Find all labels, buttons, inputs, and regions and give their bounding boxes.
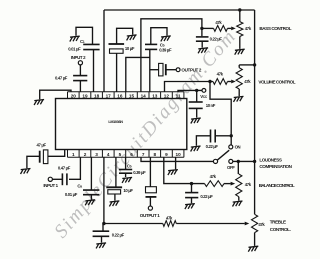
svg-text:VOLUME CONTROL: VOLUME CONTROL xyxy=(258,79,295,84)
arrow treble wiper xyxy=(245,222,250,226)
svg-text:ON: ON xyxy=(235,145,241,150)
resistor 47k bass xyxy=(214,26,228,32)
svg-text:BALANCE CONTROL: BALANCE CONTROL xyxy=(259,183,295,188)
svg-text:OUTPUT 2: OUTPUT 2 xyxy=(181,67,202,72)
svg-text:13: 13 xyxy=(152,93,158,98)
wire top rail xyxy=(104,9,255,11)
node volume wiper junction xyxy=(208,80,211,83)
wire pin9 to balance R xyxy=(164,157,205,183)
wire rail to bottom cap xyxy=(102,224,104,232)
ground pin20 xyxy=(34,100,44,106)
capacitor 10nF xyxy=(189,102,203,108)
capacitor 0.01uF Ca xyxy=(83,190,99,195)
wire pin19 up xyxy=(79,81,81,92)
svg-text:17: 17 xyxy=(106,93,112,98)
capacitor electrolytic OUTPUT1 xyxy=(146,187,157,193)
ground loudness cap xyxy=(191,146,201,152)
wire bass pot to ground xyxy=(239,37,241,49)
wire pin5 down xyxy=(115,157,117,187)
capacitor 0.22uF balance xyxy=(185,193,198,198)
ground 47uF xyxy=(21,169,31,175)
node bass junction xyxy=(200,27,203,30)
node Vcc junction xyxy=(195,89,198,92)
capacitor 0.39uF Cb2 xyxy=(119,170,132,174)
wire 10uF to ground xyxy=(117,28,133,44)
svg-text:LM1036N: LM1036N xyxy=(108,120,123,124)
wire rail to bass pot xyxy=(239,10,241,22)
svg-text:19: 19 xyxy=(82,93,88,98)
wire pin4 down xyxy=(103,157,105,223)
svg-text:47k: 47k xyxy=(166,215,173,220)
capacitor 0.22uF bass xyxy=(196,37,209,41)
ground Cb2 xyxy=(122,177,132,183)
capacitor 47uF pin1 xyxy=(39,151,41,163)
svg-text:INPUT 1: INPUT 1 xyxy=(43,183,58,188)
wire treble R to arrow xyxy=(176,223,244,225)
svg-text:11: 11 xyxy=(176,93,181,98)
svg-text:OUTPUT 1: OUTPUT 1 xyxy=(140,213,161,218)
ground Ca xyxy=(85,200,95,206)
ground 10uF pin5 xyxy=(109,201,119,207)
wire cap to INPUT1 terminal xyxy=(53,178,63,180)
wire pin13 branch to OUTPUT2 cap xyxy=(150,69,159,71)
IC U1 LM1036N body xyxy=(56,99,187,150)
svg-text:0.01 µF: 0.01 µF xyxy=(65,192,78,197)
wire C1 to ground xyxy=(76,27,93,44)
svg-text:10 µF: 10 µF xyxy=(125,46,135,51)
svg-text:Cb: Cb xyxy=(127,163,132,168)
wire 10uF to ground xyxy=(114,194,116,201)
wire loudness cap to junction xyxy=(215,135,229,137)
wire OUTPUT2 cap to terminal xyxy=(166,69,176,71)
wire pin14 second rail to bass node xyxy=(141,19,202,92)
potentiometer 47k volume xyxy=(236,68,242,89)
wire Cb2 to ground xyxy=(125,173,127,177)
svg-text:0.22 µF: 0.22 µF xyxy=(206,144,219,149)
potentiometer 47k balance xyxy=(236,174,242,197)
wire pin10 to ground xyxy=(175,157,177,169)
wire bottom cap to ground xyxy=(101,236,103,242)
wire pin16 up xyxy=(116,53,118,92)
wire Cb to ground xyxy=(151,28,167,45)
svg-text:8: 8 xyxy=(153,152,156,157)
svg-text:10 nF: 10 nF xyxy=(206,103,216,108)
node volume rail xyxy=(253,63,256,66)
wire to balance pot xyxy=(237,161,239,174)
svg-text:TREBLE: TREBLE xyxy=(270,219,286,224)
pin numbers bottom row 1..10 xyxy=(72,152,181,157)
svg-text:INPUT 2: INPUT 2 xyxy=(71,55,86,60)
terminal OUTPUT 2 xyxy=(176,68,180,72)
potentiometer 47k treble xyxy=(252,214,258,232)
svg-text:47k: 47k xyxy=(245,26,252,31)
capacitor electrolytic OUTPUT2 xyxy=(159,63,163,76)
ground Cb xyxy=(161,36,171,42)
wire volume pot top xyxy=(238,65,240,68)
ground 10nF xyxy=(191,118,201,124)
wire pin7 to switch pole xyxy=(141,157,213,161)
terminal Vcc xyxy=(202,89,206,93)
node balance junction xyxy=(190,182,193,185)
capacitor 10uF pin5 xyxy=(106,186,122,188)
resistor 47k treble xyxy=(163,221,177,227)
svg-text:0.47 µF: 0.47 µF xyxy=(58,166,71,171)
wire treble pot to ground xyxy=(254,233,256,246)
arrow balance wiper xyxy=(231,182,236,186)
wire R to arrow xyxy=(228,27,232,29)
wire pin13 up xyxy=(149,49,151,91)
svg-text:Ca: Ca xyxy=(77,184,82,189)
svg-text:C1: C1 xyxy=(80,39,85,44)
switch lever xyxy=(217,150,229,160)
wire rail to volume pot xyxy=(239,64,254,66)
wire pin8 down xyxy=(149,157,151,186)
svg-text:10 µF: 10 µF xyxy=(123,188,133,193)
svg-text:47 µF: 47 µF xyxy=(37,142,47,147)
svg-text:10: 10 xyxy=(175,152,181,157)
terminal switch pole xyxy=(213,159,217,163)
wire junction to balance cap xyxy=(191,184,193,193)
node right rail loudness xyxy=(253,160,256,163)
svg-text:BASS CONTROL: BASS CONTROL xyxy=(259,26,291,31)
svg-text:20: 20 xyxy=(71,93,77,98)
ground pin10 xyxy=(168,170,178,176)
wire bottom rail xyxy=(104,223,163,225)
svg-text:0.22 µF: 0.22 µF xyxy=(200,194,213,199)
node bottom rail left xyxy=(102,222,105,225)
arrow volume wiper xyxy=(231,80,236,84)
wire pin1 to 47uF xyxy=(48,150,65,157)
arrow bass wiper xyxy=(231,27,236,31)
svg-text:9: 9 xyxy=(165,152,168,157)
svg-text:47k: 47k xyxy=(217,72,224,77)
svg-text:1: 1 xyxy=(72,152,75,157)
svg-text:0.22 µF: 0.22 µF xyxy=(210,37,223,42)
svg-text:4: 4 xyxy=(107,152,110,157)
svg-text:47k: 47k xyxy=(244,79,251,84)
wire 10nF to ground xyxy=(196,108,198,117)
capacitor 10uF pin16 xyxy=(109,43,125,45)
node loudness junction xyxy=(230,134,233,137)
wire cap to INPUT2 terminal xyxy=(79,65,81,76)
svg-text:47k: 47k xyxy=(245,182,252,187)
terminal switch OFF xyxy=(229,159,233,163)
wire balance pot to ground xyxy=(238,197,240,201)
node bass pot top xyxy=(238,8,241,11)
wire balance cap to ground xyxy=(191,198,193,204)
terminal OUTPUT 1 xyxy=(148,206,152,210)
wire R to arrow balance xyxy=(224,183,231,185)
svg-text:LOUDNESS: LOUDNESS xyxy=(259,157,282,162)
wire pin2 to input cap xyxy=(69,157,80,179)
wire R to arrow volume xyxy=(228,81,232,83)
wire pin6 down xyxy=(125,157,127,169)
ground treble pot xyxy=(248,246,258,252)
svg-text:0.39 µF: 0.39 µF xyxy=(159,47,172,52)
svg-text:CONTROL.: CONTROL. xyxy=(270,227,291,232)
ground C1 xyxy=(70,36,80,42)
svg-text:5: 5 xyxy=(119,152,122,157)
svg-text:3: 3 xyxy=(95,152,98,157)
wire pin12 up and right xyxy=(165,82,214,92)
wire 47uF to ground xyxy=(27,156,40,168)
wire loudness cap to ground xyxy=(196,136,210,146)
ground bass cap xyxy=(198,48,208,54)
wire pin15 to Cb node xyxy=(126,57,150,91)
svg-text:VCC: VCC xyxy=(200,94,208,99)
ground balance cap xyxy=(185,204,195,210)
capacitor 0.47uF input1 xyxy=(62,173,67,185)
resistor 47k volume xyxy=(213,79,228,85)
svg-text:16: 16 xyxy=(117,93,123,98)
ground bass pot xyxy=(235,49,245,55)
wire Vcc node to 10nF xyxy=(196,90,198,102)
terminal INPUT 2 xyxy=(78,61,82,65)
wire pin3 down xyxy=(90,157,92,190)
wire volume node to loudness junction xyxy=(210,82,231,136)
resistor 47k balance xyxy=(205,181,225,187)
wire volume pot to ground xyxy=(238,89,240,96)
capacitor 0.47uF input2 xyxy=(73,76,87,81)
node balance pot top junction xyxy=(237,160,240,163)
wire junction to ON contact xyxy=(230,136,232,145)
capacitor 0.39uF Cb xyxy=(145,44,157,49)
terminal INPUT 1 xyxy=(48,177,52,181)
capacitor 0.01uF C1 xyxy=(83,44,99,49)
svg-text:18: 18 xyxy=(94,93,100,98)
svg-text:0.22 µF: 0.22 µF xyxy=(112,232,125,237)
ground volume pot xyxy=(234,96,244,102)
wire to OUTPUT1 terminal xyxy=(149,197,151,206)
wire pin20 to ground xyxy=(40,90,71,99)
svg-text:COMPENSATION: COMPENSATION xyxy=(259,164,292,169)
svg-text:47k: 47k xyxy=(210,174,217,179)
svg-text:6: 6 xyxy=(130,152,133,157)
svg-text:47k: 47k xyxy=(215,20,222,25)
pin numbers top row 20..11 xyxy=(71,93,181,98)
svg-text:OFF: OFF xyxy=(227,165,235,170)
wire pin18 up xyxy=(93,50,95,92)
svg-text:12: 12 xyxy=(164,93,170,98)
svg-text:47k: 47k xyxy=(258,222,265,227)
svg-text:2: 2 xyxy=(84,152,87,157)
potentiometer 47k bass xyxy=(237,22,243,37)
ground 10uF pin16 xyxy=(127,35,137,41)
svg-text:0.47 µF: 0.47 µF xyxy=(55,76,68,81)
wire right rail xyxy=(254,10,256,214)
wire bass cap to ground xyxy=(201,41,203,47)
IC bottom pin box row xyxy=(68,150,184,158)
IC top pin box row xyxy=(68,92,184,99)
wire bass node to R xyxy=(202,27,214,29)
wire OFF to right rail xyxy=(233,160,255,162)
capacitor 0.22uF bottom xyxy=(93,231,110,236)
svg-text:0.39 µF: 0.39 µF xyxy=(133,170,146,175)
ground bottom cap xyxy=(96,243,106,249)
wire pin17 to top rail xyxy=(103,10,105,92)
wire pin11 to Vcc terminal xyxy=(178,90,202,91)
svg-text:14: 14 xyxy=(141,93,147,98)
capacitor 0.22uF loudness xyxy=(211,130,216,143)
ground balance pot xyxy=(233,201,243,207)
svg-text:7: 7 xyxy=(142,152,145,157)
svg-text:15: 15 xyxy=(129,93,135,98)
wire Ca to ground xyxy=(90,195,92,200)
terminal switch ON xyxy=(229,145,233,149)
svg-text:0.01 µF: 0.01 µF xyxy=(68,47,81,52)
